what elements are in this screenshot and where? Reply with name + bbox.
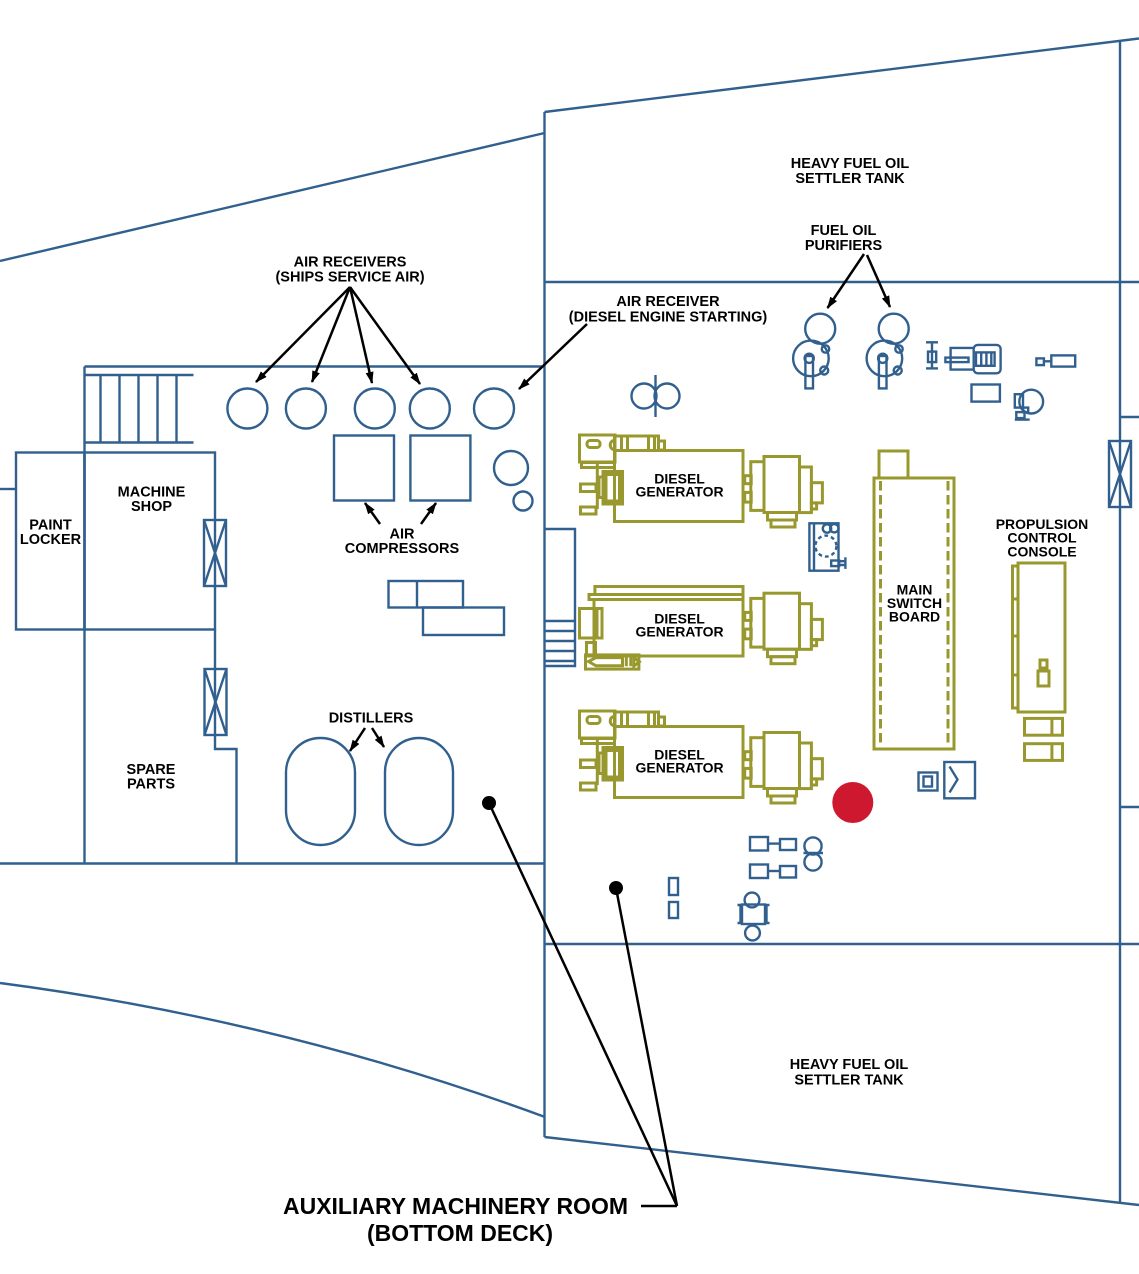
machinery room bottom bulkhead	[545, 943, 1139, 945]
svg-text:AUXILIARY MACHINERY ROOM: AUXILIARY MACHINERY ROOM	[283, 1193, 628, 1219]
svg-text:LOCKER: LOCKER	[20, 532, 82, 548]
air compressor 1	[334, 436, 394, 501]
hull bottom curve left	[0, 983, 545, 1117]
bobbin item	[926, 342, 938, 368]
bottom deck wall left	[0, 862, 545, 864]
square in square	[919, 773, 938, 791]
pump with dashed circle	[809, 523, 845, 570]
arrow receivers 2	[312, 287, 350, 382]
air receiver circle 4	[410, 389, 450, 429]
arrow receivers 4	[350, 287, 420, 384]
frame tick lower right	[1120, 806, 1139, 808]
leader line 2	[616, 888, 677, 1206]
workshop top wall	[85, 365, 545, 367]
wall stairway center	[545, 529, 576, 666]
arrow compressor 1	[365, 503, 380, 524]
svg-text:HEAVY FUEL OIL: HEAVY FUEL OIL	[790, 1057, 909, 1073]
air receiver circle 2	[286, 389, 326, 429]
fuel oil purifier 2	[867, 314, 909, 389]
workshop left wall	[83, 367, 85, 864]
leader line 1	[489, 803, 677, 1206]
settler tank bulkhead line	[545, 281, 1139, 283]
fuel oil purifier 1	[793, 314, 835, 389]
double circle pump symbol	[632, 375, 680, 417]
aux circle small	[514, 492, 533, 511]
aux circle large	[494, 451, 528, 485]
arrow purifier 1	[828, 254, 865, 308]
console step 2	[1025, 744, 1063, 761]
arrow purifier 2	[867, 255, 890, 307]
svg-text:HEAVY FUEL OIL: HEAVY FUEL OIL	[791, 156, 910, 172]
valve on right wall	[1109, 441, 1131, 507]
workbench upper	[389, 581, 464, 608]
spare parts wall	[215, 630, 237, 864]
console step 1	[1025, 718, 1063, 735]
diesel generator 2	[580, 587, 823, 670]
red dot	[832, 782, 873, 823]
clamp item	[944, 762, 975, 798]
arrow compressor 2	[421, 503, 436, 524]
svg-text:FUEL OIL: FUEL OIL	[811, 223, 877, 239]
hull bottom line right	[545, 1137, 1139, 1205]
machinery room left wall	[543, 112, 545, 1137]
black dot 2	[609, 881, 623, 895]
svg-text:SETTLER TANK: SETTLER TANK	[794, 1072, 904, 1088]
main switch board	[874, 451, 954, 749]
svg-text:SETTLER TANK: SETTLER TANK	[795, 171, 905, 187]
svg-text:GENERATOR: GENERATOR	[636, 624, 724, 640]
small rect a	[669, 878, 678, 895]
svg-text:(BOTTOM DECK): (BOTTOM DECK)	[367, 1220, 553, 1246]
paint locker	[0, 453, 85, 630]
machinery room right wall	[1119, 41, 1121, 1203]
hull top line	[545, 39, 1139, 113]
small rect b	[669, 902, 678, 918]
arrow receivers 3	[350, 287, 372, 383]
bottom pump	[738, 893, 770, 941]
arrow receivers 1	[256, 287, 350, 382]
svg-text:SHOP: SHOP	[131, 499, 172, 515]
frame tick upper right	[1120, 416, 1139, 418]
black dot 1	[482, 796, 496, 810]
stacked circles	[804, 837, 824, 870]
svg-text:COMPRESSORS: COMPRESSORS	[345, 541, 460, 557]
air receiver circle 5	[474, 389, 514, 429]
svg-text:(SHIPS SERVICE AIR): (SHIPS SERVICE AIR)	[275, 270, 424, 286]
svg-text:PARTS: PARTS	[127, 777, 175, 793]
gun item	[945, 345, 1000, 373]
arrow distiller 1	[350, 728, 365, 751]
diesel generator 3	[580, 711, 823, 803]
machine shop	[85, 453, 216, 630]
svg-text:CONSOLE: CONSOLE	[1007, 544, 1076, 560]
ventilation valve 2	[205, 669, 227, 735]
svg-text:AIR RECEIVER: AIR RECEIVER	[616, 294, 720, 310]
diesel generator 1	[580, 435, 823, 527]
workbench lower	[423, 608, 504, 636]
svg-text:AIR RECEIVERS: AIR RECEIVERS	[294, 255, 407, 271]
arrow receiver diesel	[519, 324, 587, 389]
svg-text:PURIFIERS: PURIFIERS	[805, 238, 883, 254]
propulsion control console	[1013, 563, 1066, 712]
svg-text:DISTILLERS: DISTILLERS	[329, 711, 414, 727]
arrow distiller 2	[372, 728, 384, 747]
svg-text:BOARD: BOARD	[889, 609, 940, 625]
square pair row 1	[750, 837, 796, 851]
distiller 2	[385, 738, 453, 845]
circle pump item	[1015, 390, 1043, 420]
svg-text:(DIESEL ENGINE STARTING): (DIESEL ENGINE STARTING)	[569, 310, 768, 326]
distiller 1	[286, 738, 355, 845]
stairway top-left	[85, 375, 194, 443]
square pair row 2	[750, 865, 796, 879]
ventilation valve 1	[204, 520, 226, 586]
plain rect item	[972, 385, 1000, 402]
air receiver circle 1	[227, 389, 267, 429]
air receiver circle 3	[355, 389, 395, 429]
leader line horizontal	[641, 1205, 677, 1208]
plug item	[1036, 355, 1075, 366]
hull sheer line top-left	[0, 133, 545, 261]
air compressor 2	[410, 436, 470, 501]
